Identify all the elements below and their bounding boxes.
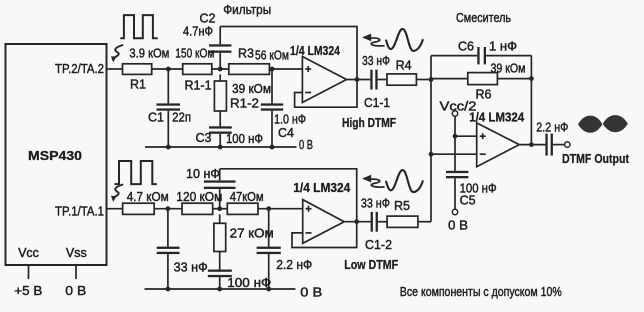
svg-text:120 кОм: 120 кОм	[176, 190, 222, 204]
junction dot U3 output	[529, 142, 534, 147]
svg-text:C5: C5	[460, 194, 476, 208]
wire U2 feedback to inverting input	[292, 222, 357, 248]
wire node B up to C2	[219, 53, 221, 69]
wire R3 to op-amp U1	[269, 68, 302, 70]
svg-text:R4: R4	[396, 59, 412, 73]
svg-text:56 кОм: 56 кОм	[255, 49, 289, 63]
wire R5 to mixer node	[418, 221, 431, 223]
junction dot 100nF-ground	[217, 287, 222, 292]
icon square wave top	[120, 15, 157, 38]
icon arrow top	[370, 38, 385, 46]
capacitor C4	[261, 103, 283, 105]
wire to C6	[431, 55, 477, 57]
resistor R3	[229, 64, 270, 75]
wire node C down to C4	[271, 69, 273, 103]
node I junction dot	[266, 206, 271, 211]
svg-text:R3: R3	[238, 47, 254, 61]
wire U2 output	[344, 221, 370, 223]
wire C4 to ground rail	[271, 111, 273, 147]
capacitor 33nF	[157, 247, 180, 249]
resistor 27k	[219, 214, 221, 223]
junction dot noninverting	[453, 134, 458, 139]
wire to 120k	[154, 208, 182, 210]
capacitor C1	[157, 103, 181, 105]
wire mixer input vertical	[430, 56, 432, 222]
terminal 0V C5	[452, 209, 457, 214]
pin Vcc stub	[28, 265, 30, 279]
wire Vcc/2 down	[454, 116, 456, 171]
wire R1 to R1-1	[152, 68, 183, 70]
svg-text:R1-1: R1-1	[184, 78, 211, 92]
svg-text:Vcc: Vcc	[18, 246, 39, 260]
node H junction dot	[217, 206, 222, 211]
svg-text:R1-2: R1-2	[230, 97, 259, 111]
terminal Vcc/2	[452, 111, 457, 116]
capacitor C6	[477, 47, 479, 64]
icon square wave bottom	[115, 161, 157, 184]
wire R6 to right vertical	[497, 78, 531, 80]
svg-text:1/4 LM324: 1/4 LM324	[290, 44, 340, 58]
capacitor C3	[209, 126, 232, 128]
junction dot 2.2nF-ground	[266, 287, 271, 292]
svg-text:Смеситель: Смеситель	[456, 11, 511, 25]
svg-text:10 нФ: 10 нФ	[186, 167, 220, 181]
node F junction dot	[429, 152, 434, 157]
svg-text:33 нФ: 33 нФ	[362, 54, 390, 68]
svg-text:3.9 кОм: 3.9 кОм	[129, 46, 169, 60]
svg-text:2.2 нФ: 2.2 нФ	[536, 121, 568, 135]
wire TP.1/TA.1 to R2	[107, 208, 123, 210]
wire 2.2nF to ground	[268, 254, 270, 289]
svg-text:1/4 LM324: 1/4 LM324	[469, 110, 524, 124]
wire C1-1 to R4	[378, 79, 387, 81]
svg-text:1/4 LM324: 1/4 LM324	[293, 181, 350, 195]
svg-text:C1: C1	[148, 111, 164, 125]
wire to 47k	[213, 208, 228, 210]
capacitor C5	[446, 171, 468, 173]
wire node H up to 10nF	[219, 189, 221, 209]
svg-text:100 нФ: 100 нФ	[226, 132, 263, 146]
svg-text:4.7нФ: 4.7нФ	[183, 25, 213, 39]
op-amp U1 high filter	[302, 57, 346, 103]
icon sine wave top	[386, 29, 423, 51]
wire C6 to right vertical	[486, 55, 531, 57]
svg-text:TP.2/TA.2: TP.2/TA.2	[55, 62, 104, 76]
wire to output terminal	[553, 144, 565, 146]
wire C1-2 to R5	[378, 221, 387, 223]
svg-text:0 В: 0 В	[448, 219, 468, 233]
svg-text:0 В: 0 В	[65, 284, 86, 298]
svg-text:27 кОм: 27 кОм	[230, 226, 274, 240]
capacitor C1-1	[370, 70, 372, 90]
junction dot C4-ground	[270, 145, 275, 150]
MSP430 IC box	[6, 44, 107, 265]
resistor 4.7k	[123, 203, 155, 214]
svg-text:39 кОм: 39 кОм	[491, 61, 526, 75]
node D output junction dot	[355, 77, 360, 82]
resistor R5	[387, 216, 418, 227]
svg-text:R6: R6	[476, 87, 492, 101]
svg-text:0 В: 0 В	[299, 138, 313, 152]
resistor 120k	[182, 203, 213, 214]
resistor R1	[123, 64, 152, 75]
ground rail upper filter	[145, 146, 297, 148]
wire R1-1 to R3	[212, 68, 229, 70]
node J output junction dot	[354, 219, 359, 224]
wire 10nF up to feedback	[219, 169, 221, 181]
svg-text:1 нФ: 1 нФ	[489, 40, 517, 54]
svg-text:C6: C6	[458, 40, 474, 54]
resistor 47k	[227, 203, 258, 214]
pin Vss stub	[75, 265, 77, 279]
capacitor C1-2	[371, 212, 373, 232]
svg-text:C1-1: C1-1	[364, 96, 390, 110]
svg-text:0 В: 0 В	[300, 286, 322, 300]
resistor R1-1	[183, 64, 212, 75]
wire 100nF to ground	[219, 277, 221, 289]
resistor R6	[468, 73, 498, 85]
wire node A down to C1	[167, 69, 169, 103]
svg-text:C4: C4	[278, 126, 294, 140]
capacitor 10nF	[204, 187, 236, 189]
svg-text:High DTMF: High DTMF	[342, 116, 396, 130]
wire U1 feedback to inverting input	[295, 80, 357, 108]
op-amp U2 low filter	[303, 200, 345, 244]
wire TP.2/TA.2 to R1	[107, 68, 123, 70]
svg-text:100 нФ: 100 нФ	[227, 276, 271, 290]
node G junction dot	[166, 206, 171, 211]
wire R4 to mixer node	[416, 79, 431, 81]
svg-text:22п: 22п	[172, 111, 191, 125]
svg-text:R1: R1	[130, 78, 146, 92]
svg-text:DTMF Output: DTMF Output	[562, 152, 630, 166]
icon pin squiggle arrow top	[114, 45, 123, 58]
node B junction dot	[218, 67, 223, 72]
capacitor 100nF lower	[208, 270, 232, 272]
wire U3 output	[519, 144, 545, 146]
wire 33nF to ground	[167, 254, 169, 289]
resistor R1-2	[219, 74, 221, 81]
wire feedback right vertical	[530, 56, 532, 145]
logo lens right	[603, 115, 628, 132]
svg-text:33 нФ: 33 нФ	[174, 260, 208, 274]
wire node F to U3 inverting input	[431, 153, 477, 155]
node C junction dot	[270, 67, 275, 72]
icon arrow bottom	[370, 179, 385, 187]
svg-text:Low DTMF: Low DTMF	[344, 258, 398, 272]
svg-text:33 нФ: 33 нФ	[361, 197, 390, 211]
svg-text:C1-2: C1-2	[365, 238, 392, 252]
wire C2 up to feedback wire	[219, 27, 221, 45]
svg-text:39 кОм: 39 кОм	[232, 82, 271, 96]
wire feedback top (filter 1)	[220, 27, 357, 80]
capacitor 2.2nF output	[545, 134, 547, 156]
resistor R4	[387, 74, 416, 85]
op-amp U3 mixer	[477, 123, 520, 167]
wire to U3 noninverting input	[455, 135, 477, 137]
wire node I down to 2.2nF	[268, 209, 270, 247]
logo lens left	[578, 116, 602, 133]
wire C3 to ground rail	[219, 134, 221, 147]
wire node E to R6	[431, 78, 468, 80]
junction dot R6 right	[529, 76, 534, 81]
wire U1 output	[347, 79, 371, 81]
wire C5 down	[454, 178, 456, 209]
terminal DTMF output	[565, 142, 570, 147]
svg-text:TP.1/TA.1: TP.1/TA.1	[55, 205, 104, 219]
capacitor C2	[209, 51, 231, 53]
svg-text:+5 В: +5 В	[14, 284, 42, 298]
icon pin squiggle arrow bottom	[114, 184, 123, 197]
node E junction dot	[429, 77, 434, 82]
svg-text:4.7 кОм: 4.7 кОм	[127, 190, 169, 204]
junction dot C3-ground	[218, 145, 223, 150]
junction dot C1-ground	[166, 145, 171, 150]
wire 47k to op-amp U2	[258, 208, 303, 210]
svg-text:2.2 нФ: 2.2 нФ	[276, 258, 312, 272]
svg-text:1.0 нФ: 1.0 нФ	[274, 113, 306, 127]
svg-text:150 кОм: 150 кОм	[175, 47, 214, 61]
svg-text:C3: C3	[196, 131, 212, 145]
svg-text:Фильтры: Фильтры	[223, 3, 271, 17]
svg-text:Все компоненты с допуском 10%: Все компоненты с допуском 10%	[400, 285, 562, 299]
node A junction dot	[166, 67, 171, 72]
ground rail lower filter	[145, 288, 296, 290]
svg-text:R5: R5	[394, 199, 410, 213]
svg-text:Vss: Vss	[66, 246, 87, 260]
junction dot 33nF-ground	[166, 287, 171, 292]
capacitor 2.2nF lower	[257, 247, 281, 249]
wire node G down to 33nF	[167, 209, 169, 247]
icon sine wave bottom	[386, 170, 423, 192]
svg-text:47кОм: 47кОм	[230, 190, 264, 204]
wire C1 to ground rail	[167, 111, 169, 147]
wire feedback top (filter 2)	[220, 169, 357, 222]
svg-text:C2: C2	[200, 12, 216, 26]
svg-text:MSP430: MSP430	[28, 149, 82, 163]
